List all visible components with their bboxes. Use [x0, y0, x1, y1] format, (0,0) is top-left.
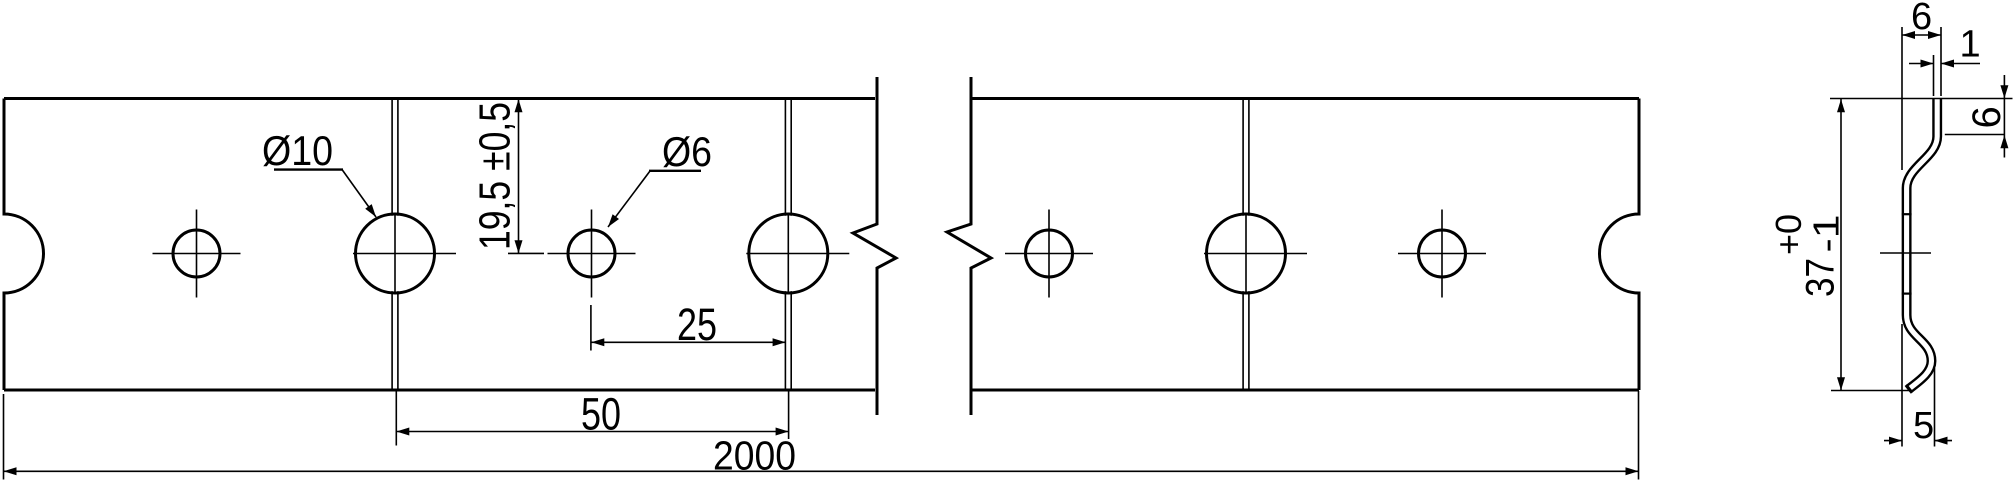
- side view hole centerline: [1880, 252, 1931, 254]
- svg-text:-1: -1: [1806, 215, 1847, 253]
- dimension 6 top lines: [1902, 27, 1941, 170]
- side view break tick upper: [1902, 213, 1912, 215]
- side top extension line: [1830, 98, 2013, 100]
- dimension 50 lines: [396, 390, 788, 446]
- dimension 6 right lines: [1945, 75, 2009, 158]
- label O6: [662, 128, 712, 175]
- leader O10: [274, 170, 376, 218]
- O10 hole 1: [356, 214, 435, 293]
- svg-text:6: 6: [1911, 0, 1932, 38]
- strip bottom edge (left part): [4, 389, 875, 392]
- svg-text:37: 37: [1799, 258, 1843, 297]
- O10 hole 3 centerlines: [1204, 214, 1307, 294]
- dimension 1 label: [1960, 24, 1981, 66]
- strip left edge with half-hole notch: [4, 99, 44, 391]
- dimension 1 lines: [1909, 55, 1980, 96]
- O6 hole 2: [568, 230, 615, 277]
- O10 hole 2 centerlines: [746, 214, 849, 294]
- bend jog double line at x=395: [392, 99, 398, 391]
- strip right edge with half-hole notch: [1600, 99, 1640, 391]
- bend jog double line at x=1246: [1243, 99, 1249, 391]
- dimension 2000 label: [713, 433, 796, 479]
- side view break tick lower: [1902, 293, 1912, 295]
- break line right: [947, 77, 991, 415]
- dimension 50 label: [581, 389, 621, 440]
- strip top edge (right part): [971, 97, 1639, 100]
- dimension 6 right label: [1965, 106, 2009, 128]
- leader O6: [608, 171, 701, 227]
- O6 hole 1: [173, 230, 220, 277]
- dimension 37 label: [1768, 214, 1847, 297]
- svg-text:25: 25: [677, 299, 717, 350]
- svg-text:5: 5: [1913, 405, 1934, 447]
- svg-text:+0: +0: [1768, 214, 1809, 255]
- O10 hole 2: [749, 214, 828, 293]
- O10 hole 1 centerlines: [353, 214, 456, 294]
- svg-text:50: 50: [581, 389, 621, 440]
- O6 hole 3: [1026, 230, 1073, 277]
- svg-text:2000: 2000: [713, 433, 796, 479]
- dimension 37 lines: [1837, 99, 1845, 391]
- O6 hole 3 centerlines: [1005, 210, 1093, 298]
- dimension 2000 lines: [4, 391, 1639, 480]
- side view sheet profile: [1906, 99, 1937, 393]
- O6 hole 4 centerlines: [1398, 210, 1486, 298]
- svg-text:Ø6: Ø6: [662, 128, 712, 175]
- dimension 25 lines: [591, 305, 786, 351]
- break line left: [853, 77, 896, 415]
- svg-text:1: 1: [1960, 24, 1981, 66]
- strip bottom edge (right part): [971, 389, 1639, 392]
- svg-text:6: 6: [1965, 106, 2009, 128]
- O10 hole 3: [1207, 214, 1286, 293]
- dimension 25 label: [677, 299, 717, 350]
- strip top edge (left part): [4, 97, 875, 100]
- dimension 5 label: [1913, 405, 1934, 447]
- svg-text:19,5 ±0,5: 19,5 ±0,5: [471, 102, 520, 250]
- side bottom extension line: [1831, 390, 1911, 392]
- dimension 5 lines: [1884, 324, 1952, 447]
- O6 hole 2 centerlines: [548, 210, 636, 298]
- O6 hole 1 centerlines: [153, 210, 241, 298]
- O6 hole 4: [1419, 230, 1466, 277]
- dimension 19,5 +-0,5 lines: [508, 99, 544, 254]
- label O10: [262, 127, 333, 174]
- bend jog double line at x=788: [785, 99, 791, 391]
- dimension 6 top label: [1911, 0, 1932, 38]
- svg-text:Ø10: Ø10: [262, 127, 333, 174]
- dimension 19,5 +-0,5 label: [471, 102, 520, 250]
